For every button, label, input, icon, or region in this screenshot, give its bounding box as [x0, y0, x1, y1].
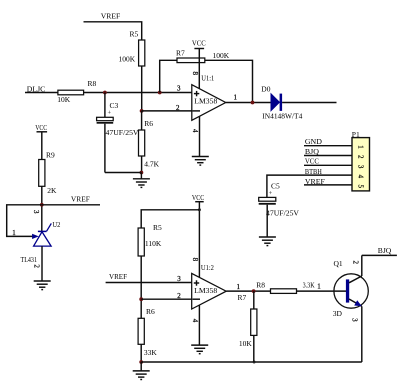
svg-text:8: 8: [191, 71, 199, 75]
wire: [304, 145, 352, 147]
svg-text:2: 2: [177, 292, 181, 300]
wire: [140, 344, 142, 362]
wire: [84, 22, 142, 40]
svg-text:100K: 100K: [213, 51, 230, 60]
node A (junction pin2): [140, 109, 144, 113]
svg-text:R5: R5: [153, 223, 162, 232]
wire: [304, 184, 352, 186]
wire: [84, 92, 192, 94]
ground: [192, 157, 209, 166]
svg-text:U1:2: U1:2: [201, 263, 214, 272]
ground: [34, 281, 51, 290]
svg-text:1: 1: [357, 145, 365, 149]
ground: [133, 173, 150, 188]
svg-text:R8: R8: [256, 281, 265, 290]
svg-text:VCC: VCC: [35, 123, 47, 132]
resistor R8 (second): [256, 281, 315, 294]
svg-text:LM358: LM358: [194, 287, 218, 295]
wire: [106, 282, 192, 284]
svg-text:LM358: LM358: [194, 97, 218, 105]
resistor R9: [39, 151, 57, 196]
node F (VREF junction): [40, 203, 44, 207]
svg-text:1: 1: [237, 283, 241, 291]
svg-text:GND: GND: [305, 137, 323, 146]
svg-text:4: 4: [191, 129, 199, 133]
svg-text:D0: D0: [261, 85, 270, 94]
svg-text:R7: R7: [238, 293, 247, 302]
pin 4: [191, 116, 199, 156]
svg-text:VREF: VREF: [109, 272, 127, 281]
svg-text:3: 3: [32, 210, 40, 214]
wire: [141, 66, 143, 111]
transistor U2 (TL431): [21, 220, 61, 264]
svg-text:3: 3: [357, 165, 365, 169]
svg-text:BJQ: BJQ: [305, 147, 320, 156]
wire: [142, 110, 192, 112]
node E (output junction): [251, 101, 255, 105]
wire: [25, 92, 58, 94]
svg-text:47UF/25V: 47UF/25V: [106, 128, 140, 137]
svg-text:2: 2: [352, 260, 360, 264]
power VCC: [192, 39, 206, 89]
wire: [304, 155, 352, 157]
wire: [41, 186, 43, 231]
svg-text:R6: R6: [146, 307, 155, 316]
node B (junction C3/R6/gnd): [140, 171, 144, 175]
svg-text:C5: C5: [271, 181, 280, 190]
power VCC (second stage): [192, 193, 204, 277]
svg-text:VREF: VREF: [71, 194, 90, 203]
node G (tee): [198, 208, 201, 211]
svg-text:3.3K: 3.3K: [303, 281, 315, 290]
resistor R8: [57, 79, 96, 104]
resistor R7: [176, 48, 230, 62]
node K (junction R7): [252, 289, 256, 293]
svg-text:R5: R5: [130, 30, 139, 39]
wire: [267, 175, 352, 197]
svg-text:+: +: [269, 190, 273, 197]
svg-text:VCC: VCC: [192, 39, 206, 48]
svg-text:VREF: VREF: [101, 12, 121, 21]
svg-text:TL431: TL431: [21, 255, 38, 264]
svg-text:R6: R6: [144, 119, 153, 128]
svg-text:2K: 2K: [47, 186, 57, 195]
wire: [41, 246, 43, 281]
wire: [141, 298, 192, 300]
svg-text:10K: 10K: [57, 95, 70, 104]
svg-text:8: 8: [191, 258, 199, 262]
ground: [191, 345, 208, 354]
svg-text:2: 2: [33, 264, 41, 268]
svg-text:R7: R7: [176, 48, 185, 57]
svg-text:U1:1: U1:1: [201, 73, 214, 82]
wire: [361, 306, 363, 362]
resistor R6: [139, 111, 160, 173]
diode D0: [261, 85, 302, 121]
svg-text:110K: 110K: [145, 239, 162, 248]
svg-text:2: 2: [176, 104, 180, 112]
power VCC (left): [35, 123, 47, 160]
node C (junction C3 tap): [103, 91, 107, 95]
resistor R7 (second): [238, 291, 257, 362]
wire: [205, 60, 253, 102]
svg-text:VCC: VCC: [305, 157, 319, 166]
svg-text:100K: 100K: [119, 54, 136, 63]
svg-text:1: 1: [12, 229, 16, 237]
svg-text:2: 2: [357, 155, 365, 159]
svg-text:47UF/25V: 47UF/25V: [266, 208, 300, 217]
resistor R5: [119, 30, 145, 66]
svg-text:+: +: [108, 109, 112, 116]
svg-text:1: 1: [234, 94, 238, 102]
wire (bottom rail): [141, 361, 362, 363]
wire (output): [226, 102, 271, 104]
wire (output 2): [226, 290, 270, 292]
ground: [259, 237, 276, 246]
svg-text:BJQ: BJQ: [378, 246, 392, 255]
svg-text:3: 3: [177, 275, 181, 283]
wire (feedback up): [160, 60, 177, 92]
wire: [304, 164, 352, 166]
resistor R5 (second): [138, 223, 162, 256]
svg-text:3D: 3D: [333, 309, 343, 318]
svg-text:Q1: Q1: [334, 259, 343, 268]
connector P1: [352, 130, 370, 191]
wire: [297, 290, 347, 292]
capacitor C5: [259, 181, 300, 237]
svg-text:3: 3: [177, 85, 181, 93]
wire: [362, 254, 397, 256]
op-amp U1:1: [192, 73, 226, 120]
svg-text:R9: R9: [46, 151, 55, 160]
svg-text:1: 1: [317, 283, 321, 291]
capacitor C3: [97, 93, 139, 173]
node J (rail tee): [253, 361, 256, 364]
svg-text:VCC: VCC: [192, 193, 204, 202]
op-amp U1:2: [192, 263, 227, 309]
svg-text:IN4148W/T4: IN4148W/T4: [262, 111, 302, 120]
wire (ref loop): [7, 205, 42, 237]
wire: [282, 102, 336, 104]
transistor Q1: [333, 259, 369, 318]
ground: [133, 362, 150, 380]
node D (junction feedback): [158, 91, 162, 95]
svg-text:33K: 33K: [144, 348, 158, 357]
wire: [42, 204, 100, 206]
wire: [141, 210, 199, 228]
wire: [105, 172, 141, 174]
wire: [361, 255, 363, 276]
svg-text:10K: 10K: [239, 339, 253, 348]
svg-text:U2: U2: [52, 220, 60, 229]
svg-text:R8: R8: [88, 79, 97, 88]
wire: [140, 256, 142, 318]
svg-text:3: 3: [351, 318, 359, 322]
resistor R6 (second): [138, 307, 157, 357]
node I (rail junction): [139, 360, 143, 364]
node H (junction pin2): [139, 297, 143, 301]
svg-text:4: 4: [357, 175, 365, 179]
svg-text:5: 5: [357, 184, 365, 188]
svg-text:4.7K: 4.7K: [144, 160, 159, 169]
svg-text:4: 4: [191, 319, 199, 323]
pin 4: [191, 305, 200, 345]
